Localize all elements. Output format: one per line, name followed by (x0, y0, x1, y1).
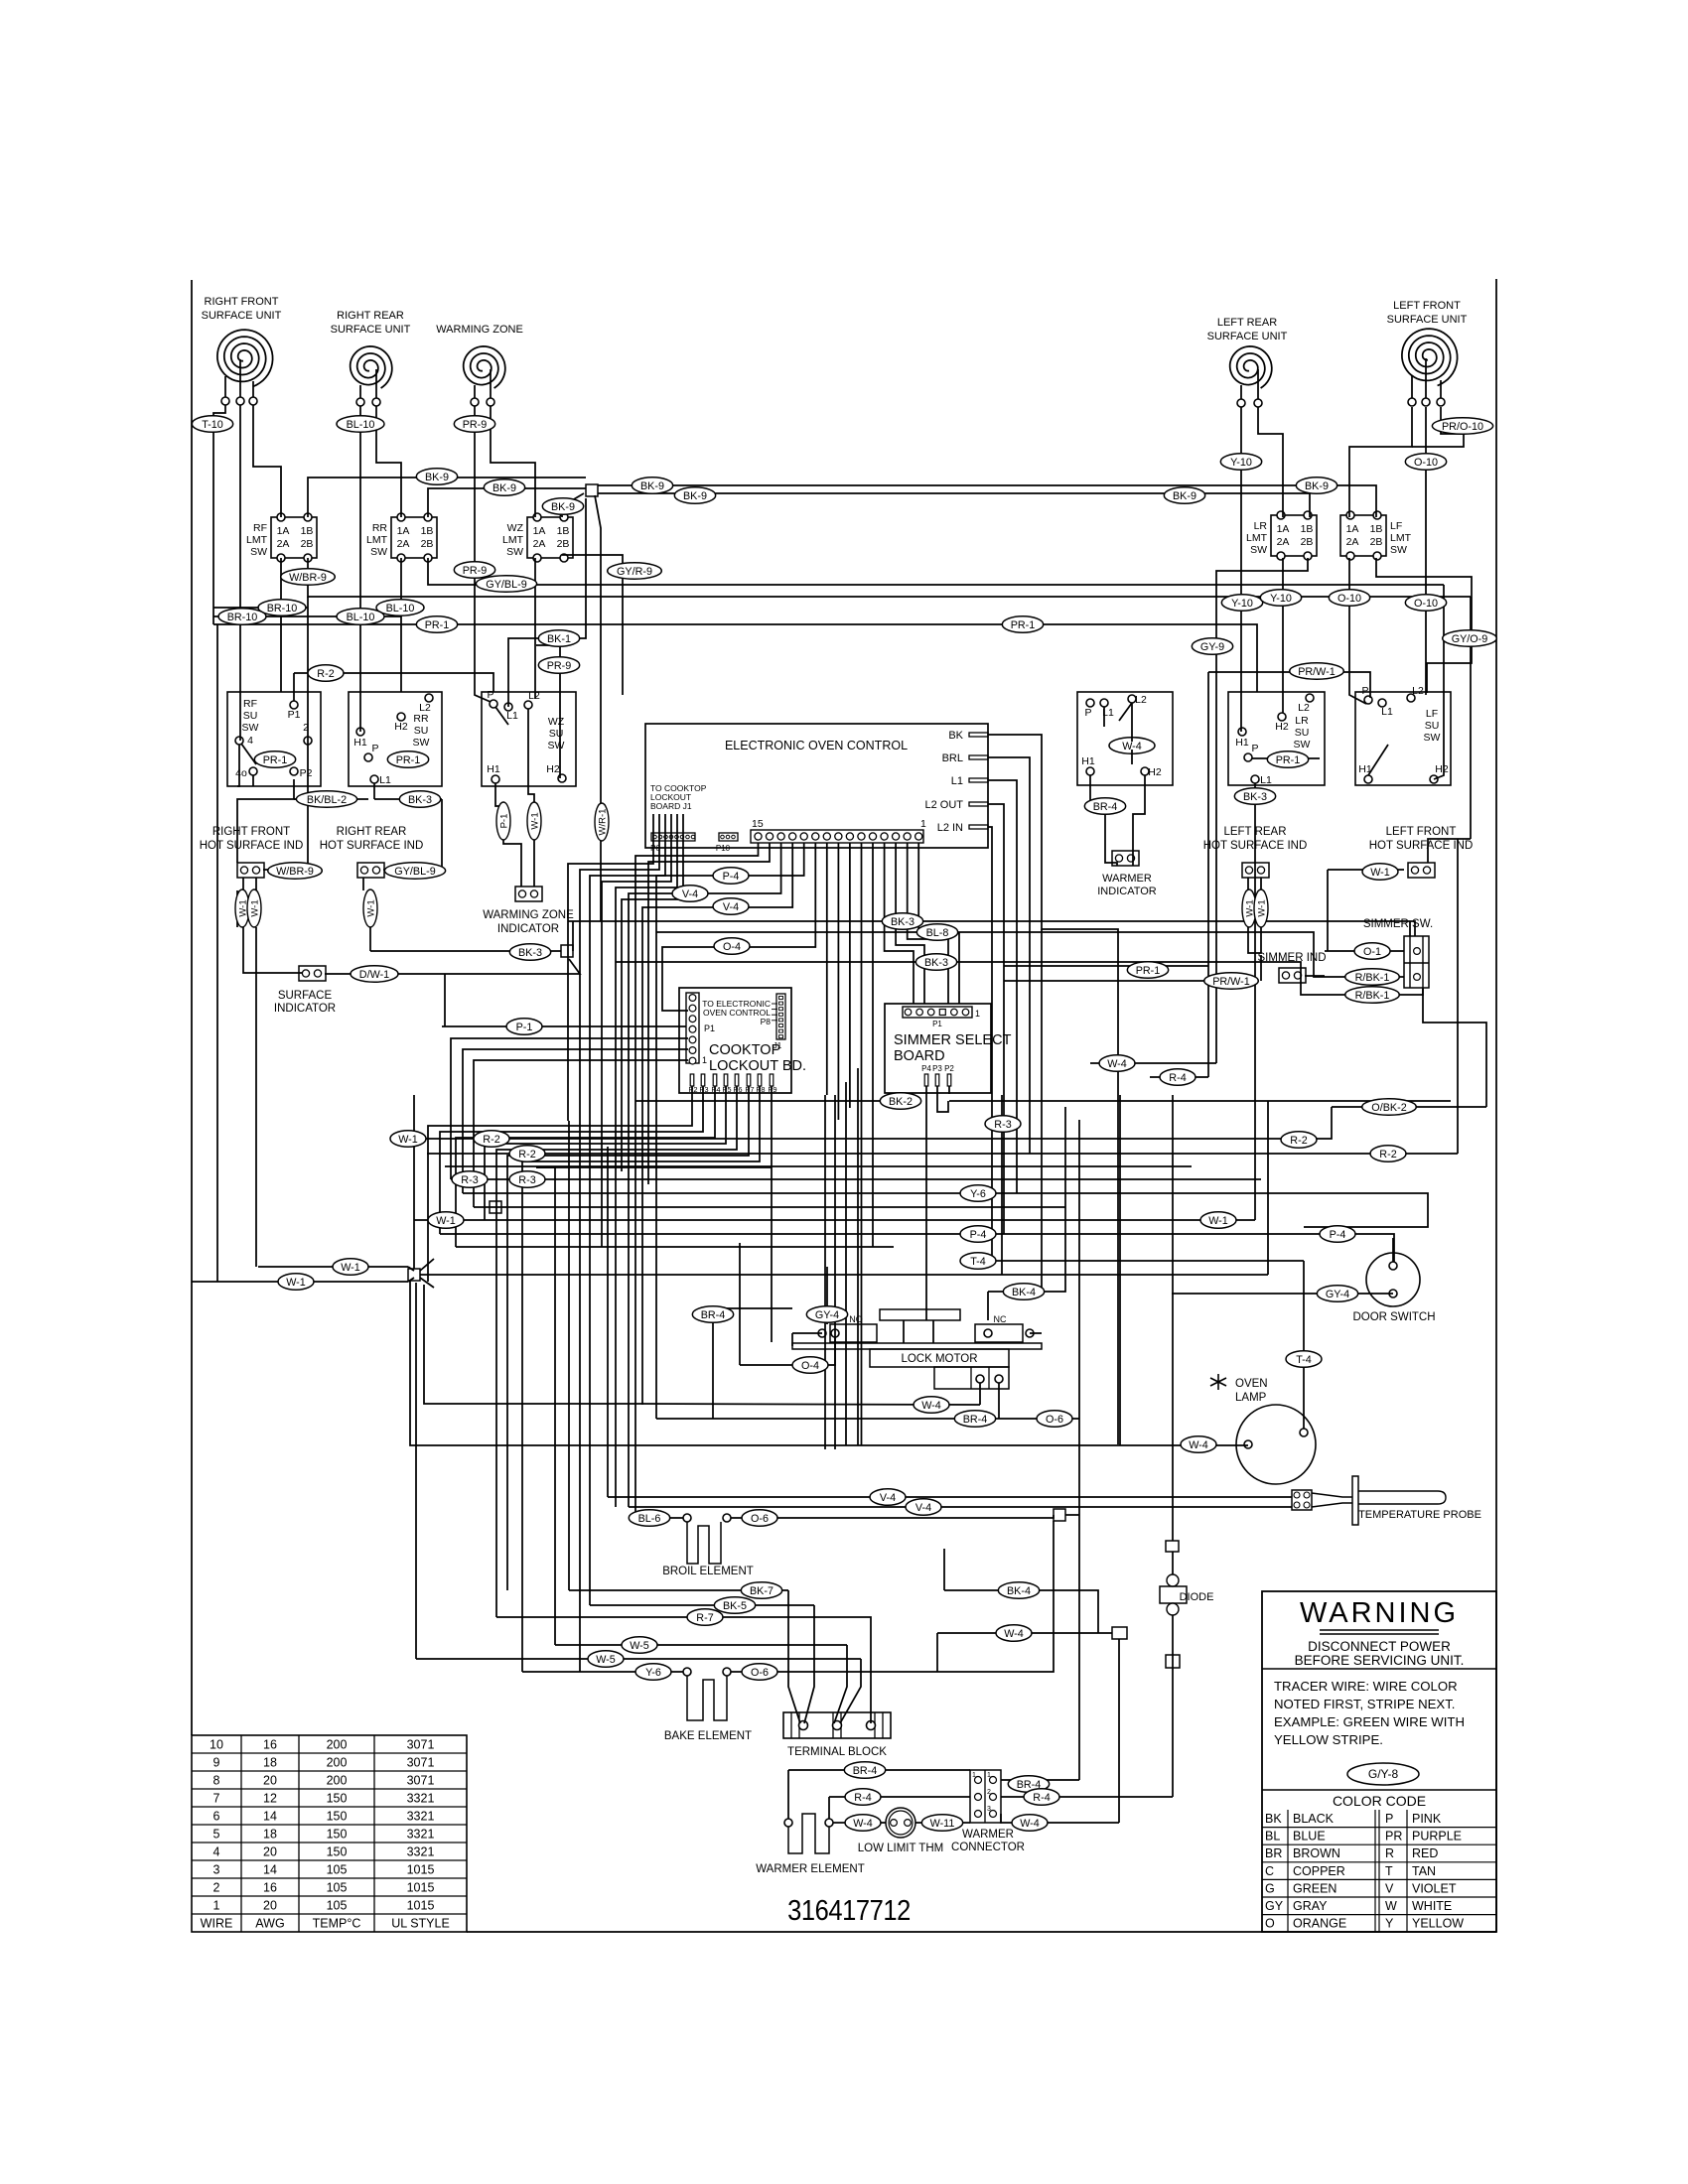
wire (442, 1025, 686, 1027)
wire label BL-10 (337, 609, 384, 625)
wire (213, 615, 401, 617)
wire (451, 1178, 1261, 1180)
warming zone coil (464, 346, 505, 406)
inline component square upper (1166, 1541, 1179, 1552)
wire (857, 1068, 859, 1445)
svg-text:L2 OUT: L2 OUT (924, 799, 963, 811)
wire label P-4 (960, 1226, 996, 1243)
LR limit switch (1246, 511, 1317, 560)
svg-text:4: 4 (213, 1845, 220, 1859)
wire (608, 1496, 1292, 1498)
wire label Y-10 (1260, 590, 1301, 607)
svg-text:RR: RR (372, 522, 388, 534)
wire (1103, 707, 1105, 727)
svg-text:4o: 4o (235, 767, 247, 779)
svg-text:3071: 3071 (407, 1738, 435, 1752)
svg-text:VIOLET: VIOLET (1412, 1881, 1457, 1895)
wire (420, 1259, 434, 1271)
svg-text:3321: 3321 (407, 1828, 435, 1842)
wire (307, 597, 309, 870)
svg-text:P3: P3 (699, 1085, 708, 1094)
wire (589, 1133, 591, 1605)
svg-text:12: 12 (263, 1792, 277, 1806)
svg-text:LMT: LMT (1390, 532, 1412, 544)
wire (992, 1260, 1304, 1262)
wire (1260, 955, 1262, 981)
svg-text:TAN: TAN (1412, 1864, 1436, 1878)
svg-text:20: 20 (263, 1899, 277, 1913)
svg-text:18: 18 (263, 1828, 277, 1842)
WZ limit switch (502, 513, 573, 562)
simmer switch (1363, 918, 1433, 988)
wire (833, 1822, 886, 1824)
svg-text:P6: P6 (733, 1085, 742, 1094)
svg-text:RF: RF (253, 522, 267, 534)
drawing frame bottom border (467, 1931, 1496, 1933)
wire (491, 406, 535, 517)
svg-text:WARNING: WARNING (1300, 1597, 1459, 1629)
right rear hot surface indicator (357, 863, 384, 878)
wire (1001, 1796, 1173, 1798)
svg-text:W: W (1385, 1899, 1397, 1913)
wire (370, 950, 561, 952)
wire (474, 1206, 1065, 1208)
svg-text:W/BR-9: W/BR-9 (289, 572, 327, 584)
wire (1267, 1101, 1269, 1275)
wire (936, 1633, 938, 1672)
svg-text:L2: L2 (528, 690, 540, 702)
svg-text:150: 150 (327, 1792, 348, 1806)
wire (508, 498, 586, 707)
wire label W-4 (845, 1815, 881, 1832)
svg-text:LMT: LMT (246, 534, 268, 546)
svg-text:20: 20 (263, 1845, 277, 1859)
wire label R-7 (687, 1609, 723, 1626)
diode (1160, 1574, 1213, 1615)
svg-text:316417712: 316417712 (787, 1893, 911, 1926)
WZ surface switch (482, 689, 576, 786)
wire label O-6 (742, 1664, 777, 1681)
svg-text:R: R (1385, 1846, 1394, 1860)
wire label BK-1 (538, 630, 579, 647)
wire label BK-3 (1234, 788, 1275, 805)
svg-text:1B: 1B (1370, 523, 1383, 535)
svg-text:1: 1 (213, 1899, 220, 1913)
wire (522, 1671, 683, 1673)
wire (598, 493, 1310, 517)
wire (1349, 407, 1412, 517)
svg-text:PR-9: PR-9 (463, 565, 488, 577)
door switch (1352, 1253, 1435, 1323)
bake element (664, 1668, 752, 1742)
svg-text:H1: H1 (1235, 737, 1249, 749)
wire (1090, 1062, 1216, 1064)
wire (1208, 672, 1370, 698)
wire (237, 745, 239, 786)
wire label V-4 (870, 1489, 906, 1506)
wire (496, 1617, 871, 1723)
svg-text:16: 16 (263, 1738, 277, 1752)
svg-text:SURFACE: SURFACE (278, 990, 333, 1002)
wire label PR-1 (1002, 616, 1043, 633)
svg-text:LMT: LMT (502, 534, 524, 546)
svg-text:O-10: O-10 (1337, 593, 1361, 605)
svg-text:PR-1: PR-1 (1276, 754, 1301, 766)
svg-text:18: 18 (263, 1756, 277, 1770)
svg-text:P2: P2 (300, 767, 313, 779)
broil element (662, 1514, 754, 1577)
svg-text:GY/BL-9: GY/BL-9 (394, 866, 435, 878)
svg-text:14: 14 (263, 1810, 277, 1824)
wire label Y-6 (960, 1185, 996, 1202)
svg-text:SW: SW (250, 546, 267, 558)
wire (413, 1095, 415, 1269)
svg-text:LAMP: LAMP (1235, 1392, 1267, 1404)
wire (788, 1769, 970, 1771)
svg-text:WHITE: WHITE (1412, 1899, 1452, 1913)
svg-text:Y-10: Y-10 (1270, 593, 1292, 605)
wire (376, 406, 401, 517)
wire label BL-10 (337, 416, 384, 433)
wire label W-1 (1200, 1212, 1236, 1229)
svg-text:R-2: R-2 (317, 668, 334, 680)
wire (522, 1086, 760, 1672)
wire label W-1 (278, 1274, 314, 1291)
junction node 5 (1054, 1509, 1065, 1521)
svg-text:W/BR-9: W/BR-9 (276, 866, 314, 878)
svg-text:V-4: V-4 (880, 1492, 896, 1504)
wire label V-4 (672, 886, 708, 902)
svg-text:200: 200 (327, 1774, 348, 1788)
wire (629, 1506, 1292, 1508)
svg-text:15: 15 (752, 818, 764, 830)
svg-text:RF: RF (243, 698, 257, 710)
svg-text:BR-4: BR-4 (1093, 801, 1118, 813)
svg-text:BK-3: BK-3 (891, 916, 914, 928)
svg-text:P5: P5 (722, 1085, 731, 1094)
wire label PR-1 (387, 751, 428, 768)
wire label R-4 (1024, 1789, 1059, 1806)
junction node 1 (586, 484, 598, 496)
svg-text:GY: GY (1265, 1899, 1284, 1913)
svg-text:SURFACE UNIT: SURFACE UNIT (331, 324, 411, 336)
wire label Y-6 (635, 1664, 671, 1681)
svg-text:NC: NC (994, 1314, 1007, 1324)
wire label BK-3 (882, 913, 922, 930)
wire (1412, 407, 1464, 447)
wire (572, 921, 574, 951)
wire (415, 1283, 417, 1659)
wire label PR-1 (416, 616, 457, 633)
warming zone indicator (483, 887, 574, 935)
svg-text:3: 3 (987, 1806, 991, 1813)
wire (771, 1086, 773, 1342)
svg-text:150: 150 (327, 1845, 348, 1859)
wire (1172, 1615, 1174, 1797)
svg-text:UL STYLE: UL STYLE (391, 1917, 450, 1931)
svg-text:BROIL ELEMENT: BROIL ELEMENT (662, 1566, 754, 1577)
svg-text:W-5: W-5 (596, 1654, 616, 1666)
svg-text:GY/R-9: GY/R-9 (617, 566, 652, 578)
svg-text:2B: 2B (1370, 536, 1383, 548)
svg-text:4: 4 (247, 735, 253, 747)
wire label GY/O-9 (1443, 630, 1497, 647)
svg-text:SW: SW (548, 740, 565, 751)
wire (988, 827, 992, 1261)
wire label O-10 (1405, 595, 1446, 612)
svg-text:1A: 1A (397, 525, 410, 537)
wire (1425, 407, 1427, 695)
wire (420, 1278, 434, 1288)
wire (590, 1604, 814, 1606)
svg-text:BK-1: BK-1 (547, 633, 571, 645)
svg-text:L1: L1 (506, 710, 518, 722)
wire (642, 1404, 980, 1405)
svg-text:200: 200 (327, 1756, 348, 1770)
right front hot surface indicator (237, 863, 264, 878)
wire (1133, 775, 1145, 866)
wire label W-4 (996, 1625, 1032, 1642)
wire (988, 735, 1118, 1444)
svg-text:R-3: R-3 (518, 1174, 535, 1186)
svg-text:RIGHT REAR: RIGHT REAR (337, 826, 407, 838)
svg-text:2A: 2A (277, 538, 290, 550)
wire label W-1 vertical (1254, 889, 1268, 927)
wire (834, 1645, 847, 1723)
wire gauge table (192, 1735, 467, 1932)
svg-text:BR-4: BR-4 (701, 1309, 726, 1321)
wire label PR-1 (254, 751, 295, 768)
wire (987, 1292, 989, 1320)
svg-text:SU: SU (1295, 727, 1310, 739)
svg-text:W-4: W-4 (1004, 1628, 1024, 1640)
svg-text:P2: P2 (688, 1085, 697, 1094)
svg-text:RIGHT FRONT: RIGHT FRONT (212, 826, 290, 838)
wire (1404, 988, 1423, 995)
wire (1470, 597, 1472, 839)
svg-text:200: 200 (327, 1738, 348, 1752)
wire (308, 478, 586, 517)
wire (824, 1095, 826, 1449)
wire (740, 1364, 810, 1366)
svg-text:O-4: O-4 (723, 941, 741, 953)
wire (896, 843, 924, 1004)
svg-text:H2: H2 (546, 763, 560, 775)
svg-text:TRACER WIRE: WIRE COLOR: TRACER WIRE: WIRE COLOR (1274, 1679, 1458, 1694)
wire label BK-9 (542, 498, 583, 515)
wire (1119, 1095, 1121, 1445)
svg-text:O-1: O-1 (1363, 946, 1381, 958)
svg-text:1: 1 (987, 1772, 991, 1779)
wire (369, 927, 371, 951)
svg-text:1: 1 (975, 1009, 980, 1019)
svg-text:EXAMPLE: GREEN WIRE WITH: EXAMPLE: GREEN WIRE WITH (1274, 1714, 1465, 1729)
svg-text:HOT SURFACE IND: HOT SURFACE IND (320, 840, 424, 852)
svg-text:BK-2: BK-2 (889, 1096, 913, 1108)
wire (463, 1049, 688, 1193)
wire (616, 814, 677, 1160)
svg-text:W-1: W-1 (366, 899, 377, 916)
svg-text:PINK: PINK (1412, 1812, 1442, 1826)
wire (444, 974, 446, 1026)
svg-text:BK-7: BK-7 (750, 1585, 774, 1597)
svg-text:WIRE: WIRE (201, 1917, 233, 1931)
svg-text:BK/BL-2: BK/BL-2 (307, 794, 347, 806)
svg-text:P1: P1 (704, 1024, 715, 1033)
wire (949, 1100, 1451, 1102)
warmer indicator (1097, 851, 1157, 897)
wire (414, 1219, 1255, 1221)
wire label V-4 (906, 1499, 941, 1516)
warmer switch (1077, 692, 1173, 785)
wire (308, 558, 1471, 597)
svg-text:PR-1: PR-1 (396, 754, 421, 766)
wire (885, 843, 914, 1004)
svg-text:W-1: W-1 (1208, 1215, 1228, 1227)
svg-text:WZ: WZ (507, 522, 524, 534)
svg-text:BROWN: BROWN (1293, 1846, 1340, 1860)
LF surface switch (1355, 685, 1451, 785)
wire (294, 798, 368, 800)
wire (440, 1086, 703, 1234)
wire (294, 673, 493, 692)
wire label R-2 (474, 1131, 509, 1148)
wire (998, 1383, 1000, 1419)
wire (872, 843, 874, 1247)
simmer ind (1258, 952, 1327, 983)
svg-text:W-1: W-1 (1257, 899, 1268, 916)
wire (988, 757, 1030, 1154)
wire label W-1 (390, 1131, 426, 1148)
svg-text:GY-4: GY-4 (815, 1309, 839, 1321)
svg-text:P-4: P-4 (970, 1229, 987, 1241)
svg-text:W-1: W-1 (398, 1134, 418, 1146)
svg-text:BK-5: BK-5 (723, 1600, 747, 1612)
svg-text:BR-4: BR-4 (853, 1765, 878, 1777)
svg-text:V-4: V-4 (682, 888, 698, 900)
svg-text:BK: BK (1265, 1812, 1282, 1826)
RF limit switch (246, 513, 317, 562)
svg-text:BK-4: BK-4 (1012, 1287, 1036, 1298)
svg-text:W-4: W-4 (1020, 1818, 1040, 1830)
wire label D/W-1 (351, 966, 398, 983)
svg-text:LOCK MOTOR: LOCK MOTOR (901, 1353, 977, 1365)
wire (915, 1822, 970, 1824)
svg-text:BL-10: BL-10 (347, 612, 375, 623)
svg-text:P2: P2 (944, 1064, 954, 1073)
wire (568, 921, 1415, 936)
svg-text:SW: SW (413, 737, 430, 749)
wire (1131, 703, 1133, 742)
svg-text:O/BK-2: O/BK-2 (1371, 1102, 1406, 1114)
svg-text:BRL: BRL (942, 752, 963, 764)
svg-text:1A: 1A (533, 525, 546, 537)
wire label PR-9 (454, 562, 494, 579)
wire (474, 1060, 688, 1207)
wire label R-3 (509, 1171, 545, 1188)
wire (601, 1147, 603, 1247)
right rear hot surface ind label (320, 826, 424, 852)
svg-text:LF: LF (1390, 520, 1402, 532)
wire (590, 814, 665, 1133)
svg-text:WARMING ZONE: WARMING ZONE (436, 324, 523, 336)
svg-text:O-10: O-10 (1414, 457, 1438, 469)
wire (293, 673, 295, 701)
svg-text:RR: RR (413, 713, 429, 725)
low limit thermostat (858, 1808, 943, 1854)
svg-text:R-2: R-2 (1379, 1149, 1396, 1160)
wire (1260, 878, 1262, 890)
svg-text:3321: 3321 (407, 1810, 435, 1824)
wire (1172, 1095, 1174, 1541)
svg-text:SIMMER SW.: SIMMER SW. (1363, 918, 1433, 930)
wire (258, 1266, 408, 1268)
wire (252, 775, 254, 786)
svg-text:6: 6 (213, 1810, 220, 1824)
wire (216, 624, 218, 1282)
wire (731, 1515, 1054, 1518)
svg-text:2A: 2A (1346, 536, 1359, 548)
svg-text:WARMER ELEMENT: WARMER ELEMENT (756, 1863, 864, 1875)
wire label PR-9 (538, 657, 579, 674)
svg-text:YELLOW: YELLOW (1412, 1917, 1464, 1931)
svg-text:TERMINAL BLOCK: TERMINAL BLOCK (787, 1746, 887, 1758)
wire label O-4 (792, 1357, 828, 1374)
svg-text:V-4: V-4 (915, 1502, 931, 1514)
wire (495, 783, 521, 887)
wire (918, 843, 959, 1004)
svg-text:R-3: R-3 (994, 1119, 1011, 1131)
svg-text:1: 1 (702, 1055, 707, 1065)
svg-text:W-5: W-5 (630, 1640, 649, 1652)
wire (616, 962, 1404, 995)
wire label W-5 (588, 1651, 624, 1668)
svg-text:O-10: O-10 (1414, 598, 1438, 610)
svg-text:SURFACE UNIT: SURFACE UNIT (1387, 314, 1468, 326)
svg-text:10: 10 (210, 1738, 223, 1752)
wire (1325, 950, 1404, 952)
wire label R/BK-1 (1345, 969, 1400, 986)
wire (1001, 1779, 1079, 1781)
svg-text:P4: P4 (711, 1085, 720, 1094)
svg-text:1: 1 (972, 1772, 976, 1779)
svg-text:TEMP°C: TEMP°C (313, 1917, 361, 1931)
svg-text:PR-1: PR-1 (1011, 619, 1036, 631)
wire label W-1 vertical (527, 802, 541, 840)
svg-text:C: C (1265, 1864, 1274, 1878)
wire label W-1 (333, 1259, 368, 1276)
wire label W/BR-9 (268, 863, 323, 880)
wire label R/BK-1 (1345, 987, 1400, 1004)
wire (496, 1086, 737, 1617)
wire label W-1 vertical (1242, 889, 1256, 927)
wire label PR/O-10 (1432, 418, 1492, 435)
svg-text:COPPER: COPPER (1293, 1864, 1345, 1878)
svg-text:LEFT FRONT: LEFT FRONT (1386, 826, 1457, 838)
wire (713, 1307, 792, 1309)
wire (536, 645, 560, 778)
svg-text:L2: L2 (1412, 685, 1424, 697)
wire (1254, 783, 1256, 1220)
wire label GY/BL-9 (476, 576, 536, 593)
svg-text:BK-9: BK-9 (492, 482, 516, 494)
svg-text:W-1: W-1 (286, 1277, 306, 1289)
svg-text:20: 20 (263, 1774, 277, 1788)
wire (1004, 965, 1208, 967)
svg-text:L2: L2 (419, 702, 431, 714)
wire (536, 1166, 772, 1168)
svg-text:P9: P9 (768, 1085, 776, 1094)
